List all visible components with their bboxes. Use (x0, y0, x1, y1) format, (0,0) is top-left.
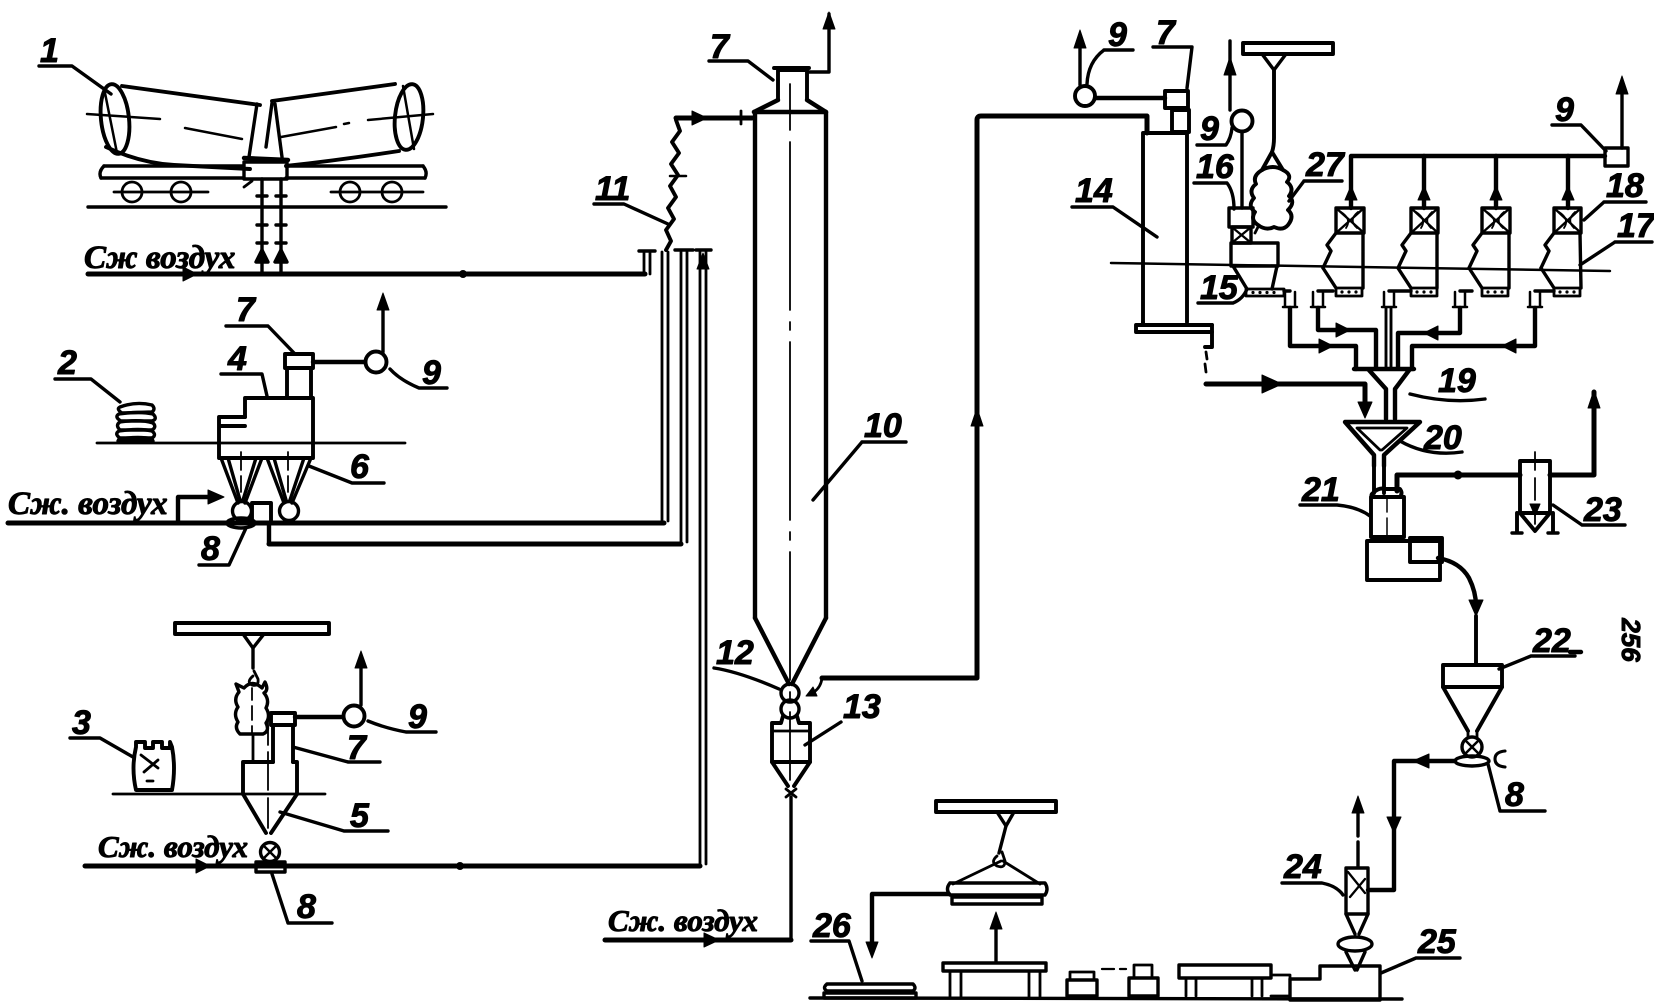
sack 3 (134, 742, 175, 790)
svg-text:8: 8 (297, 888, 316, 926)
silo 10 (754, 68, 826, 684)
funnel 19 (1354, 369, 1414, 419)
silo 14 (1136, 133, 1212, 372)
label 2 (55, 344, 120, 402)
crane station 3 (175, 623, 329, 685)
label 7 (station 2) (226, 291, 295, 354)
silo 14 top cap (1165, 91, 1189, 132)
riser pipe B (from station 2 lower) (675, 250, 693, 544)
label 8 (station 3) (272, 874, 332, 926)
chamber pump 13 (772, 716, 810, 940)
label 26 (811, 907, 862, 981)
hose coil 2 (117, 403, 156, 441)
tray 26 (824, 984, 916, 998)
rail line (88, 205, 446, 208)
branch step to lower line (267, 525, 271, 544)
svg-text:25: 25 (1417, 923, 1457, 961)
label 3 (70, 704, 133, 757)
air inlet bracket station 2 (178, 490, 224, 523)
label 8 (under 22) (1488, 764, 1545, 814)
stray mark (1570, 650, 1581, 654)
discharge valve station 3 (261, 843, 280, 862)
feeder 16 (1229, 208, 1278, 266)
air line bottom center (605, 933, 791, 947)
label 9 (unit 14) (1087, 16, 1133, 84)
filter unit F2 (1398, 208, 1438, 296)
svg-text:27: 27 (1305, 146, 1346, 184)
svg-text:Сж воздух: Сж воздух (84, 240, 235, 276)
label 12 (714, 634, 779, 689)
label 17 (1580, 207, 1654, 265)
label 27 (1289, 146, 1346, 201)
svg-text:18: 18 (1606, 167, 1644, 205)
wagon discharge hoses (244, 179, 287, 272)
svg-text:8: 8 (201, 530, 220, 568)
svg-text:19: 19 (1438, 362, 1476, 400)
riser pipe A (from station 2 main) (662, 252, 668, 523)
overhead feed line to silo (676, 111, 752, 125)
filter unit F1 (1323, 208, 1364, 296)
ground line station 2 (97, 442, 405, 445)
label 24 (1282, 848, 1343, 895)
crane (bottom middle) (936, 801, 1056, 884)
valve 8 (under 22) (1455, 737, 1505, 767)
hopper 22 (1443, 665, 1502, 737)
svg-text:256: 256 (1616, 617, 1646, 662)
air line station 2 main (8, 521, 664, 526)
label 9 (station 2) (390, 354, 447, 392)
bag on crane (station 3) (236, 682, 269, 734)
label 5 (280, 797, 388, 835)
terminal T (wagon line) (639, 251, 655, 274)
svg-text:6: 6 (350, 448, 370, 486)
label 7 (silo top) (709, 28, 773, 80)
silo center line (789, 84, 791, 780)
feed arrow into 13 (814, 678, 822, 692)
label 7 (unit 14) (1153, 14, 1192, 88)
svg-text:17: 17 (1617, 207, 1654, 245)
filter unit F3 (1469, 208, 1510, 296)
svg-text:7: 7 (236, 291, 257, 329)
svg-text:13: 13 (843, 688, 881, 726)
hopper 25 (1290, 966, 1380, 1000)
line 20 to cyclone 23 (1397, 390, 1600, 491)
cyclone 6 cones (221, 452, 311, 503)
line 22 to packer 24 (1368, 754, 1455, 890)
wagon platform (100, 162, 426, 179)
air line station 2 lower (269, 542, 681, 547)
label 14 (1072, 172, 1157, 237)
arrow above table (990, 912, 1002, 961)
svg-text:8: 8 (1505, 776, 1524, 814)
air line station 3 (85, 859, 700, 873)
label 11 (594, 170, 668, 224)
label 16 (1194, 148, 1235, 209)
svg-text:2: 2 (57, 344, 77, 382)
receiver 4 body (219, 354, 313, 458)
valve 9 (unit 14) (1074, 30, 1165, 106)
packages on floor (1067, 965, 1290, 996)
label 9 (station 3) (368, 698, 436, 736)
pump 8 (station 2) (227, 518, 255, 528)
platform line right section (1111, 263, 1610, 271)
riser pipe C (from station 3) (696, 250, 711, 866)
label 9 (manifold) (1552, 91, 1606, 151)
rotary valve 12 (781, 684, 799, 718)
label 1 (39, 32, 111, 94)
label 23 (1553, 491, 1625, 529)
wagon axis dashes (87, 86, 433, 153)
vessel 5 (243, 713, 297, 833)
collecting pipes to funnel 19 (1283, 291, 1554, 369)
label 4 (221, 340, 267, 396)
table (943, 963, 1046, 997)
floor line bottom (810, 998, 1402, 999)
ground line station 3 (113, 793, 325, 796)
svg-text:10: 10 (864, 407, 902, 445)
valve 9 (station 3) (295, 651, 367, 727)
wagon wheels (114, 182, 423, 202)
label 19 (1410, 362, 1485, 401)
svg-text:14: 14 (1075, 172, 1113, 210)
bridge over pump (252, 503, 271, 523)
label 15 (1198, 269, 1247, 307)
hose 21 to 22 (1438, 558, 1483, 665)
svg-text:24: 24 (1283, 848, 1322, 886)
label 8 (station 2) (199, 528, 246, 568)
svg-text:Сж. воздух: Сж. воздух (98, 829, 248, 864)
packer 24 (1338, 868, 1372, 970)
label 21 (1300, 471, 1370, 516)
label 6 (309, 448, 384, 486)
vent + valve 9 (over 16) (1224, 41, 1253, 208)
hopper 15 under 16 (1233, 266, 1284, 296)
svg-text:12: 12 (716, 634, 754, 672)
rotary valves under cyclones (233, 502, 252, 521)
funnel 20 (1345, 422, 1420, 466)
riser from 13 to silo 14 (822, 116, 1147, 678)
bag 27 (1251, 152, 1293, 233)
valve 9 (station 2) (313, 293, 389, 373)
label 13 (805, 688, 881, 745)
svg-text:16: 16 (1196, 148, 1235, 186)
packer 21 (1367, 466, 1442, 580)
crane (bag 27) (1243, 43, 1333, 152)
packer 24 vent (1352, 796, 1364, 866)
discharge line 14 to funnel (1206, 375, 1372, 418)
silo vent (809, 12, 835, 72)
label 20 (1400, 419, 1462, 457)
label 18 (1584, 167, 1646, 220)
tank wagon 1 (97, 83, 426, 169)
tray hatch dots (1251, 290, 1575, 294)
cyclone 23 (1512, 452, 1558, 533)
svg-text:Сж. воздух: Сж. воздух (608, 903, 758, 938)
vent manifold (1345, 76, 1628, 208)
label 22 (1499, 622, 1575, 669)
line from slab to tray 26 (866, 894, 949, 958)
label 10 (813, 407, 906, 500)
slab on crane (948, 883, 1048, 904)
label 25 (1381, 923, 1460, 973)
filter unit F4 (1541, 208, 1581, 296)
label 7 (station 3) (293, 729, 380, 767)
pump 8 pad (station 3) (256, 862, 285, 872)
air line station 1 (88, 267, 645, 281)
flexible hose 11 (666, 120, 680, 250)
svg-text:Сж. воздух: Сж. воздух (8, 486, 168, 522)
svg-text:9: 9 (1200, 110, 1219, 148)
label 9 (over 16) (1197, 110, 1232, 148)
